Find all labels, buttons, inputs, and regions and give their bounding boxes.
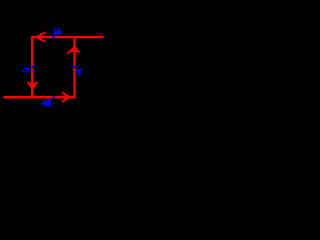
label: V (blue, right of middle branch) (76, 69, 81, 76)
tick: blue mark crossing right vertical wire (74, 66, 76, 68)
arrowhead: down-pointing on left vertical wire (28, 82, 37, 90)
tick: blue mark crossing left wire (32, 66, 34, 68)
arrowhead: left-pointing on top wire (36, 32, 45, 41)
arrowhead: right-pointing on bottom wire (62, 93, 70, 102)
wire: left vertical (31, 36, 33, 98)
wire: bottom horizontal (3, 96, 75, 99)
label: z (blue, left of left wire) (22, 68, 29, 73)
label: M (blue, above top wire) (54, 29, 61, 36)
tick: blue mark on top wire under label M (52, 36, 55, 39)
label: M (blue, below bottom wire) (41, 99, 52, 106)
arrowhead: up-pointing on right vertical wire (67, 46, 79, 54)
wire: right vertical branch (73, 36, 75, 98)
tick: blue mark on bottom wire right of label (53, 96, 55, 99)
background (0, 0, 120, 120)
wire: top horizontal (31, 36, 103, 38)
